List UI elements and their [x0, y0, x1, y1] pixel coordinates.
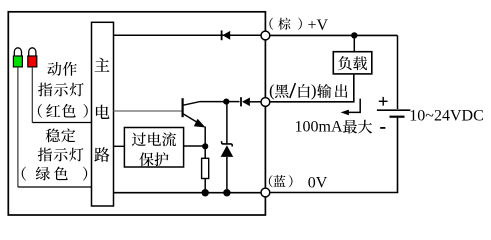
transistor Q1 NPN output [183, 98, 206, 127]
rail junction dot under R1 [202, 189, 209, 196]
rail junction dot under ZD1 [223, 189, 230, 196]
label 稳定指示灯（绿色） [22, 128, 87, 180]
label 10~24VDC [409, 107, 483, 124]
wire emitter down to node E [204, 127, 206, 147]
svg-text:10~24VDC: 10~24VDC [409, 107, 483, 124]
label 100mA最大 [295, 118, 373, 135]
svg-text:(: ( [269, 81, 275, 100]
load box [333, 52, 372, 74]
node E junction dot [202, 143, 208, 149]
output current direction arrow [341, 99, 361, 116]
terminal +V (brown) [261, 31, 270, 40]
terminal 0V (blue) [261, 188, 270, 197]
svg-text:100mA: 100mA [295, 118, 343, 135]
svg-text:): ) [311, 81, 317, 100]
LED L2 red operation indicator [28, 48, 37, 67]
wire collector to output node [200, 101, 226, 103]
wire +V internal from main circuit to +V terminal [114, 34, 262, 36]
green indicator label box bottom edge [18, 186, 92, 188]
red indicator label box bottom edge [32, 122, 92, 124]
node +V load junction dot [351, 32, 357, 38]
LED L1 green stability indicator [13, 48, 22, 67]
wire load down to output wire [270, 74, 354, 102]
label 过电流保护 [132, 132, 176, 166]
label 动作指示灯（红色） [38, 62, 88, 118]
label 主电路 vertical [94, 58, 109, 162]
zener diode ZD1 surge protection [221, 102, 234, 193]
wire 0V rail [114, 192, 262, 194]
wire battery positive branch [397, 35, 399, 109]
label 负载 [338, 56, 367, 70]
label （棕）+V [269, 17, 328, 34]
sensor body outline [8, 12, 265, 215]
overcurrent protection box [124, 128, 183, 168]
battery BT1 [377, 110, 411, 117]
wire protection box to node E [184, 145, 206, 147]
label (黑/白)输出 [269, 81, 347, 100]
main circuit block 主电路 box [92, 22, 114, 206]
battery plus sign [379, 97, 388, 106]
battery minus sign [380, 127, 385, 129]
wire green LED lead down to green label box corner [17, 67, 19, 187]
terminal output (black/white) [261, 98, 270, 107]
svg-text:+V: +V [308, 17, 329, 34]
svg-text:0V: 0V [308, 174, 328, 191]
resistor R1 emitter [202, 146, 209, 192]
diode D2 output protection [226, 97, 260, 106]
wire red LED lead down to red label box corner [31, 67, 33, 123]
wire base from main circuit to Q1 [114, 110, 183, 112]
node C output junction dot [223, 99, 229, 105]
wire +V node down to load [353, 35, 355, 51]
wire external +V from terminal to battery [270, 34, 398, 36]
wire battery negative branch to 0V [270, 118, 398, 193]
label （蓝）0V [269, 174, 328, 191]
wire main circuit to protection box [114, 145, 125, 147]
diode D1 reverse-polarity protection [222, 30, 231, 40]
